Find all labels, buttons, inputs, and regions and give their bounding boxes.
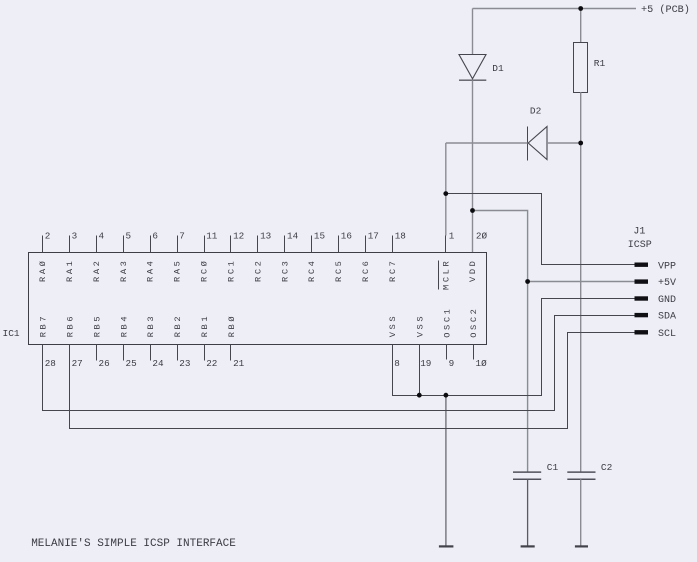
svg-text:D1: D1 [492,63,504,74]
svg-text:C1: C1 [547,462,559,473]
wire R1 top [580,9,582,43]
pin label RAØ [38,259,48,282]
pin 21 stub [230,345,232,361]
svg-text:GND: GND [658,295,676,306]
pin label OSC1 [442,307,452,338]
svg-text:4: 4 [99,230,105,241]
svg-text:5: 5 [126,230,132,241]
svg-text:3: 3 [72,230,78,241]
svg-text:D2: D2 [530,106,542,117]
node VSS19 junction [417,393,422,398]
svg-text:RB2: RB2 [173,314,183,337]
pin label RA4 [146,259,156,282]
svg-text:+5V: +5V [658,278,676,289]
pin number 9 [449,358,455,369]
label IC1 [3,328,20,339]
label D2 [530,106,542,117]
pin label RA5 [173,259,183,282]
wire GND trace J1 to VSS rail [393,299,635,396]
pin label VSS(8) [388,314,398,337]
svg-text:2: 2 [45,230,51,241]
ground symbol C2 [575,545,588,547]
svg-text:RC5: RC5 [334,259,344,282]
wire C1 to ground [527,479,529,546]
pin label RC5 [334,259,344,282]
label +5 (PCB) [641,4,690,16]
svg-text:RAØ: RAØ [38,259,48,282]
pin 26 stub [96,345,98,361]
pin 16 stub [338,236,340,253]
label SDA [658,312,676,323]
node VDD junction [470,208,475,213]
capacitor C1 [513,472,541,479]
connector J1 pin SCL [635,330,649,334]
pin 23 stub [177,345,179,361]
pin number 12 [233,230,244,241]
pin 4 stub [96,236,98,253]
pin number 11 [206,230,218,241]
wire VDD branch to C1 [473,211,528,473]
node VPP joins MCLR net [443,191,448,196]
pin number 25 [126,358,137,369]
pin number 19 [420,358,431,369]
svg-text:13: 13 [260,230,271,241]
pin number 6 [152,230,158,241]
pin label MCLR [442,259,452,290]
pin number 3 [72,230,78,241]
svg-text:12: 12 [233,230,244,241]
svg-text:2Ø: 2Ø [476,230,488,241]
node +5 rail / R1 junction [578,6,583,11]
svg-text:RC3: RC3 [280,259,290,282]
connector J1 pin VPP [635,263,649,267]
pin label RC4 [307,259,317,282]
wire C2 to ground [580,479,582,546]
pin 14 stub [284,236,286,253]
pin number 20 [476,230,488,241]
pin number 1 [449,230,455,241]
label title [31,538,236,550]
label VPP [658,261,676,272]
IC IC1 body [29,253,487,345]
pin label VDD [468,259,478,282]
pin 9 stub [446,345,448,360]
pin 12 stub [230,236,232,253]
svg-text:J1: J1 [633,226,645,237]
pin number 7 [179,230,185,241]
svg-text:VSS: VSS [415,314,425,337]
svg-text:C2: C2 [601,462,613,473]
svg-text:16: 16 [341,230,352,241]
svg-text:27: 27 [72,358,83,369]
pin label RB6 [65,314,75,337]
label GND [658,295,676,306]
svg-text:23: 23 [179,358,190,369]
svg-text:RC2: RC2 [253,259,263,282]
diode D1 [459,55,486,81]
pin label VSS(19) [415,314,425,337]
wire SDA trace RB7 to J1 [43,316,635,411]
pin label RB3 [146,314,156,337]
label R1 [594,58,606,69]
svg-text:RB6: RB6 [65,314,75,337]
svg-text:RC6: RC6 [361,259,371,282]
node GND drop junction [444,393,449,398]
svg-text:RB4: RB4 [119,314,129,337]
svg-text:VSS: VSS [388,314,398,337]
svg-text:ICSP: ICSP [628,240,652,251]
pin label RC6 [361,259,371,282]
svg-text:24: 24 [152,358,164,369]
pin number 22 [206,358,217,369]
pin 7 stub [177,236,179,253]
svg-text:R1: R1 [594,58,606,69]
pin 11 stub [204,236,206,253]
svg-text:OSC2: OSC2 [469,307,479,338]
pin label RB7 [39,314,49,337]
pin number 24 [152,358,164,369]
wire D2 cathode to MCLR net [446,142,528,144]
pin 25 stub [123,345,125,361]
svg-text:9: 9 [449,358,455,369]
pin 2 stub [42,236,44,253]
connector J1 pin SDA [635,313,649,317]
svg-text:SCL: SCL [658,329,676,340]
pin label RC7 [388,259,398,282]
wire D1 cathode to VDD junction [472,80,474,252]
node D2 anode / R1 junction [578,141,583,146]
wire D1 anode from rail [472,9,474,55]
pin label RA1 [65,259,75,282]
pin 17 stub [365,236,367,253]
svg-text:21: 21 [233,358,245,369]
svg-text:RB5: RB5 [92,314,102,337]
pin 22 stub [204,345,206,361]
svg-text:RB3: RB3 [146,314,156,337]
pin number 13 [260,230,271,241]
label ICSP [628,240,652,251]
connector J1 pin +5V [635,279,649,283]
svg-text:RB7: RB7 [39,314,49,337]
label SCL [658,329,676,340]
wire SCL trace RB6 to J1 [70,333,635,429]
wire VSS pin19 drop [419,345,421,396]
pin label RC3 [280,259,290,282]
wire +5(PCB) top rail [473,8,637,10]
pin number 27 [72,358,83,369]
pin number 18 [395,230,406,241]
svg-text:8: 8 [394,358,400,369]
svg-text:RC1: RC1 [226,259,236,282]
svg-text:RC4: RC4 [307,259,317,282]
pin label RC1 [226,259,236,282]
pin number 8 [394,358,400,369]
svg-text:18: 18 [395,230,406,241]
label +5V [658,278,676,289]
pin number 2 [45,230,51,241]
svg-text:RA4: RA4 [146,259,156,282]
svg-text:+5 (PCB): +5 (PCB) [641,4,690,16]
pin label RA2 [92,259,102,282]
svg-text:14: 14 [287,230,299,241]
MCLR overline [438,261,440,290]
pin number 17 [368,230,379,241]
label J1 [633,226,645,237]
wire pin1 stub [445,236,447,253]
pin label RB2 [173,314,183,337]
svg-text:RA3: RA3 [119,259,129,282]
svg-text:RCØ: RCØ [200,259,210,282]
connector J1 pin GND [635,296,649,300]
label C2 [601,462,613,473]
svg-text:7: 7 [179,230,185,241]
pin number 15 [314,230,325,241]
pin number 16 [341,230,352,241]
pin 15 stub [311,236,313,253]
wire MCLR net vertical [445,143,447,236]
ground symbol C1 [521,545,535,547]
svg-text:VPP: VPP [658,261,676,272]
node +5V junction [525,279,530,284]
pin number 21 [233,358,245,369]
pin 24 stub [150,345,152,361]
svg-text:1Ø: 1Ø [476,358,488,369]
pin number 5 [126,230,132,241]
pin label RB5 [92,314,102,337]
svg-text:OSC1: OSC1 [442,307,452,338]
svg-text:28: 28 [45,358,56,369]
svg-text:17: 17 [368,230,379,241]
pin label RC2 [253,259,263,282]
pin number 23 [179,358,190,369]
pin label OSC2 [469,307,479,338]
pin number 10 [476,358,488,369]
wire VPP trace [446,194,635,265]
wire +5V to J1 [528,281,635,283]
svg-text:19: 19 [420,358,431,369]
svg-text:RA2: RA2 [92,259,102,282]
pin label RA3 [119,259,129,282]
pin 13 stub [257,236,259,253]
svg-text:11: 11 [206,230,218,241]
wire GND drop to ground [445,395,447,546]
pin 18 stub [392,236,394,253]
pin number 14 [287,230,299,241]
ground symbol left [439,545,454,547]
svg-text:MCLR: MCLR [442,259,452,290]
svg-text:RC7: RC7 [388,259,398,282]
wire R1 bottom to C2 [580,92,582,472]
diode D2 [528,127,548,161]
svg-text:RA5: RA5 [173,259,183,282]
pin 10 stub [473,345,475,360]
svg-text:VDD: VDD [468,259,478,282]
svg-text:IC1: IC1 [3,328,20,339]
pin label RBØ [227,314,237,337]
label C1 [547,462,559,473]
pin number 26 [99,358,110,369]
svg-text:6: 6 [152,230,158,241]
capacitor C2 [567,472,595,479]
svg-text:22: 22 [206,358,217,369]
svg-text:RA1: RA1 [65,259,75,282]
pin 5 stub [123,236,125,253]
svg-text:RB1: RB1 [200,314,210,337]
wire D2 anode to R1 net [547,142,581,144]
pin 6 stub [150,236,152,253]
pin label RB1 [200,314,210,337]
pin 3 stub [69,236,71,253]
svg-text:SDA: SDA [658,312,676,323]
svg-text:1: 1 [449,230,455,241]
svg-text:25: 25 [126,358,137,369]
svg-text:15: 15 [314,230,325,241]
svg-text:RBØ: RBØ [227,314,237,337]
svg-text:MELANIE'S SIMPLE ICSP INTERFAC: MELANIE'S SIMPLE ICSP INTERFACE [31,538,236,550]
resistor R1 [574,43,588,93]
pin label RB4 [119,314,129,337]
pin number 4 [99,230,105,241]
pin number 28 [45,358,56,369]
svg-text:26: 26 [99,358,110,369]
pin label RCØ [200,259,210,282]
label D1 [492,63,504,74]
